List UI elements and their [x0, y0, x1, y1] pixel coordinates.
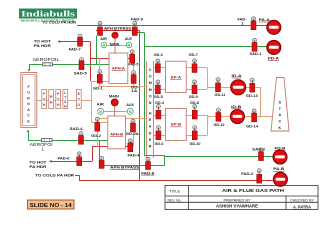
underline EP-A — [170, 78, 182, 80]
label COMMON vertical — [149, 68, 152, 105]
wire windbox air line A — [29, 64, 109, 66]
valve FAD-4 — [128, 139, 133, 152]
svg-text:PREPARED BY: PREPARED BY — [224, 198, 252, 202]
title block — [165, 186, 318, 210]
svg-text:GD-7: GD-7 — [189, 53, 198, 57]
svg-text:GD-1: GD-1 — [93, 85, 104, 90]
underline EP-B — [170, 126, 182, 128]
svg-text:AUX: AUX — [126, 103, 134, 107]
underline FD-B — [275, 150, 286, 152]
wire SA bypass riser B left — [99, 140, 101, 165]
valve SAD-5 — [79, 58, 84, 70]
svg-text:MAIN: MAIN — [109, 94, 120, 98]
svg-text:L: L — [64, 91, 66, 95]
wire EP-A outlet join — [207, 68, 209, 90]
svg-text:FAD-9: FAD-9 — [131, 17, 144, 22]
valve SAD-4 — [79, 132, 84, 145]
wire FD-A discharge line — [144, 46, 267, 48]
underline A. PATRA — [292, 208, 312, 210]
wire SA drop to windbox line — [96, 36, 98, 65]
arrow to hot PA hdr B — [49, 160, 52, 163]
precipitator EP-A — [166, 61, 187, 92]
fan FD-A — [267, 40, 281, 54]
svg-text:O: O — [149, 94, 152, 98]
valve GD-2 — [95, 117, 100, 131]
svg-text:M: M — [103, 43, 106, 47]
wire EP-B outlet top — [186, 115, 207, 117]
wire hot PA riser B — [92, 147, 94, 162]
svg-text:O: O — [77, 103, 80, 107]
valve GD-8 — [192, 104, 197, 119]
svg-text:PA HDR: PA HDR — [34, 43, 51, 48]
svg-text:APH BYPASS: APH BYPASS — [110, 165, 140, 169]
valve GD-3 — [155, 59, 160, 73]
arrow air into furnace top — [28, 69, 31, 72]
svg-text:M: M — [149, 88, 152, 92]
label FURNACE vertical — [27, 85, 30, 124]
valve GD-9 — [192, 80, 197, 94]
valve GD-4 — [156, 104, 161, 119]
valve APH bypass B right — [146, 157, 151, 169]
svg-text:GD-2: GD-2 — [91, 133, 102, 138]
svg-text:GD-14: GD-14 — [246, 125, 258, 129]
svg-text:M: M — [128, 43, 131, 47]
valve FAD-6 — [77, 152, 82, 166]
svg-text:FD-B: FD-B — [275, 146, 286, 151]
fan ID-B — [230, 110, 244, 124]
svg-text:AUX: AUX — [125, 37, 133, 41]
air preheater APH-B — [108, 116, 126, 149]
wire SA bypass riser B right — [164, 155, 166, 165]
wire ID-A suction line — [207, 87, 231, 89]
wire APH-A left gas line — [90, 58, 135, 60]
underline FAD-8 — [141, 174, 154, 176]
wire motor link A — [107, 45, 127, 47]
svg-text:FAD-4: FAD-4 — [128, 153, 141, 158]
underline FD-A — [268, 60, 279, 62]
svg-text:GD-10: GD-10 — [190, 142, 201, 146]
svg-text:GD-13: GD-13 — [246, 94, 258, 98]
wire cold PA header line A — [77, 25, 267, 27]
wire economiser gas line — [36, 100, 92, 102]
fan ID-A — [231, 80, 246, 95]
wire FD-B discharge line 2 — [165, 156, 273, 158]
svg-text:TO COLD PA HDR: TO COLD PA HDR — [35, 173, 74, 178]
heat exchanger RH — [49, 90, 54, 109]
svg-text:C: C — [27, 114, 30, 118]
air preheater APH-A — [109, 53, 128, 84]
wire GD-2 branch — [97, 118, 99, 147]
wire SA bypass line B — [99, 165, 165, 167]
wire furnace air drop A — [29, 64, 31, 69]
wire cold PA stub B — [75, 175, 79, 177]
wire EP-B outlet join — [207, 115, 209, 136]
svg-text:FAD-7: FAD-7 — [69, 47, 81, 52]
valve APH bypass B left — [99, 156, 104, 168]
svg-text:ASHISH VYAWHARE: ASHISH VYAWHARE — [216, 204, 258, 209]
wire cold PA header line B — [79, 180, 274, 182]
underline PA-A — [259, 21, 270, 23]
svg-text:M: M — [99, 110, 102, 114]
svg-text:FAD-5: FAD-5 — [128, 63, 138, 67]
svg-text:M: M — [129, 110, 132, 114]
svg-text:GD-9: GD-9 — [189, 95, 198, 99]
wire stack riser A — [260, 87, 262, 116]
motor aux motor A — [126, 42, 132, 48]
wire furnace air riser B — [28, 132, 30, 141]
svg-text:A: A — [278, 113, 281, 117]
svg-text:M: M — [149, 81, 152, 85]
valve GD-6 — [156, 126, 161, 140]
wire hot PA riser A — [90, 42, 92, 82]
wire windbox air line B — [28, 140, 108, 142]
heat exchanger PSH — [56, 90, 61, 109]
valve GD-7 — [192, 59, 197, 73]
svg-text:TO COLD PA HDR: TO COLD PA HDR — [42, 20, 76, 25]
wire EP-A inlet top — [153, 67, 165, 69]
valve GD-2A — [131, 119, 136, 132]
svg-text:SAD-2: SAD-2 — [252, 147, 265, 151]
wire GD-2A branch — [133, 118, 135, 147]
motor air motor A — [101, 42, 107, 48]
valve GD-1A — [131, 71, 136, 84]
wire EP-B inlet top — [153, 115, 165, 117]
wire GD-1 branch — [99, 58, 101, 86]
logo Indiabulls — [19, 9, 77, 23]
svg-text:PA-A: PA-A — [259, 17, 270, 22]
svg-text:Indiabulls: Indiabulls — [21, 10, 75, 19]
svg-text:1A: 1A — [131, 89, 138, 93]
wire gas to APH-B — [92, 122, 108, 124]
svg-text:SAD-5: SAD-5 — [74, 71, 88, 76]
aerofoil B flow element — [42, 139, 53, 142]
svg-text:C: C — [278, 120, 281, 124]
underline APH BYPASS B — [110, 168, 139, 170]
underline ID-A — [232, 77, 242, 79]
wire FD-B discharge line — [144, 155, 165, 157]
fan PA-A — [267, 20, 281, 34]
underline APH BYPASS A — [104, 29, 131, 31]
svg-text:GD-5: GD-5 — [154, 95, 163, 99]
svg-text:FAD-2: FAD-2 — [241, 172, 253, 176]
svg-text:SAD-1: SAD-1 — [250, 52, 262, 56]
svg-text:N: N — [27, 102, 30, 106]
svg-text:ID-A: ID-A — [232, 73, 242, 78]
underline PA-B — [273, 170, 284, 172]
arrow to hot PA hdr A — [58, 40, 61, 43]
svg-text:GD-11: GD-11 — [215, 93, 226, 97]
wire APH-B right gas line — [92, 146, 133, 148]
svg-text:ID-B: ID-B — [231, 104, 241, 109]
valve APH bypass A left — [98, 21, 103, 35]
svg-text:GD-6: GD-6 — [155, 142, 164, 146]
svg-text:O: O — [149, 75, 152, 79]
svg-text:AEROFOIL: AEROFOIL — [33, 57, 61, 62]
wire EP-B outlet bottom — [186, 135, 207, 137]
svg-text:R: R — [27, 96, 30, 100]
svg-text:EP-B: EP-B — [171, 122, 181, 127]
svg-text:CHECKED BY: CHECKED BY — [290, 198, 315, 202]
wire motor link B — [104, 110, 128, 112]
wire APH-B outlet line — [97, 118, 146, 120]
wire APH-A outlet line — [98, 86, 147, 88]
wire ID-B suction line — [207, 116, 230, 118]
svg-text:GD-3: GD-3 — [154, 53, 163, 57]
wire SA bypass link A — [137, 32, 144, 34]
wire cold PA elbow B — [79, 175, 81, 180]
furnace — [21, 73, 37, 128]
heat exchanger FSH — [42, 90, 47, 109]
svg-text:PA HDR: PA HDR — [29, 164, 46, 169]
svg-text:U: U — [27, 91, 30, 95]
wire SA header riser — [144, 33, 146, 156]
wire gas split riser — [91, 81, 93, 122]
svg-text:APH-A: APH-A — [112, 65, 125, 70]
svg-text:SLIDE NO - 14: SLIDE NO - 14 — [30, 203, 72, 209]
valve SAD-1 — [252, 38, 257, 51]
svg-text:GD-12: GD-12 — [214, 123, 225, 127]
wire EP-A inlet bottom — [153, 89, 165, 91]
valve GD-13 — [250, 78, 255, 92]
fan PA-B — [273, 172, 287, 186]
svg-text:AIR: AIR — [97, 102, 105, 106]
wire ID-B discharge to stack — [244, 116, 272, 118]
label HEADER vertical — [149, 112, 152, 149]
valve GD-5 — [155, 80, 160, 94]
duct common header left wall — [146, 61, 148, 158]
wire gas to APH-A — [92, 81, 110, 83]
svg-text:FAD-6: FAD-6 — [58, 156, 71, 161]
underline APH-B — [110, 136, 124, 138]
label STACK vertical — [278, 100, 281, 130]
stack chimney — [271, 78, 289, 132]
wire PA riser center — [139, 31, 141, 181]
underline ID-B — [231, 108, 241, 110]
aerofoil A flow element — [43, 63, 53, 66]
svg-text:TITLE: TITLE — [169, 190, 180, 194]
valve GD-1 — [97, 70, 102, 84]
wire APH bypass line A — [96, 30, 140, 32]
wire EP-B inlet bottom — [153, 135, 165, 137]
valve SAD-2 — [259, 148, 264, 161]
valve APH bypass A right — [132, 21, 137, 35]
svg-text:A: A — [27, 108, 30, 112]
heat exchanger LTSH — [63, 90, 68, 109]
wire ID-A discharge — [246, 87, 261, 89]
precipitator EP-B — [166, 109, 187, 141]
svg-text:FAD-8: FAD-8 — [141, 170, 155, 175]
wire hot PA line A — [60, 41, 90, 43]
duct common header right wall — [152, 61, 154, 158]
wire EP-A outlet bottom — [186, 89, 207, 91]
svg-text:GD-8: GD-8 — [190, 101, 199, 105]
wire GD-1A branch — [133, 62, 135, 86]
wire EP-A outlet top — [186, 67, 207, 69]
svg-text:GD-2A: GD-2A — [126, 132, 139, 136]
valve FAD-5 — [130, 50, 135, 63]
svg-text:A. PATRA: A. PATRA — [293, 204, 311, 209]
svg-text:GD-4: GD-4 — [155, 101, 164, 105]
slide number box — [28, 200, 75, 209]
motor aux motor B — [127, 108, 133, 114]
svg-text:REV. No.: REV. No. — [168, 198, 182, 202]
underline APH-A — [112, 69, 126, 71]
damper main B — [111, 99, 118, 116]
svg-text:AIR & FLUE GAS PATH: AIR & FLUE GAS PATH — [222, 188, 284, 193]
svg-text:PA-B: PA-B — [273, 166, 284, 171]
wire hot PA line B — [52, 161, 93, 163]
arrow air into furnace bottom — [27, 130, 30, 133]
svg-text:FD-A: FD-A — [268, 56, 279, 61]
valve GD-10 — [192, 126, 197, 140]
fan FD-B — [273, 150, 287, 164]
valve GD-14 — [252, 109, 257, 122]
svg-text:AIR: AIR — [100, 37, 107, 41]
valve GD-12 — [216, 108, 221, 121]
svg-text:EP-A: EP-A — [171, 74, 181, 79]
valve GD-11 — [216, 78, 221, 92]
motor air motor B — [98, 108, 104, 114]
svg-text:K: K — [278, 126, 281, 130]
svg-text:F: F — [43, 92, 45, 96]
svg-text:APH-B: APH-B — [110, 132, 123, 137]
svg-text:SAD-4: SAD-4 — [70, 126, 84, 131]
valve FAD-1 — [251, 17, 256, 30]
heat exchanger ECO — [76, 90, 81, 109]
valve FAD-7 — [78, 34, 83, 46]
valve FAD-2 — [257, 169, 262, 183]
damper FAD-9 — [112, 32, 118, 54]
